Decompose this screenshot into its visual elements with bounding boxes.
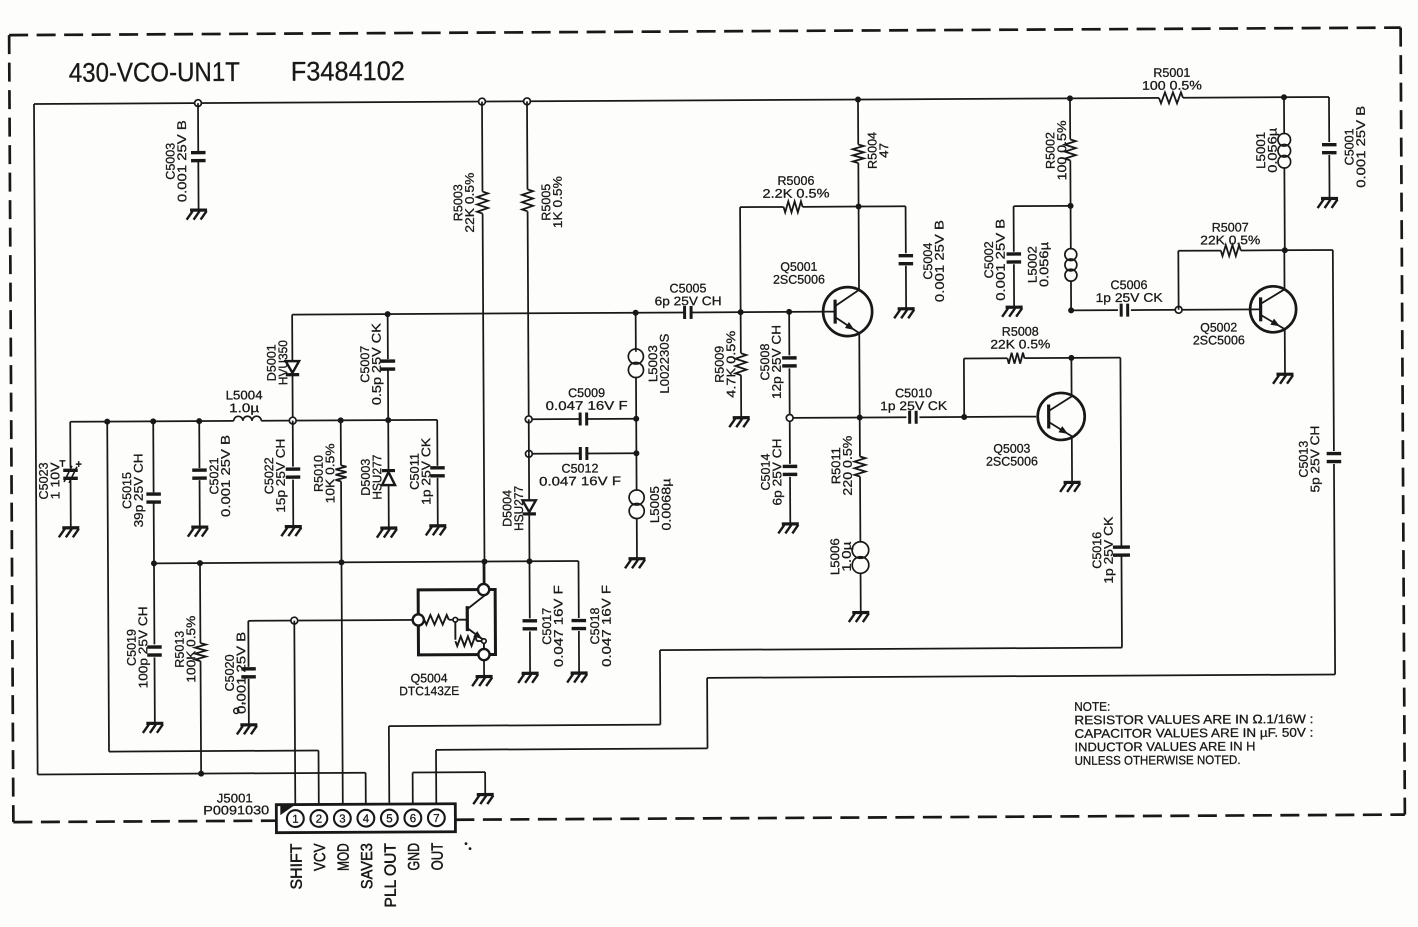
svg-text:0.047 16V F: 0.047 16V F [551,585,565,668]
svg-text:UNLESS OTHERWISE NOTED.: UNLESS OTHERWISE NOTED. [1075,753,1241,768]
svg-text:3: 3 [339,814,345,826]
svg-text:0.047 16V F: 0.047 16V F [546,399,629,413]
svg-text:5p 25V CH: 5p 25V CH [1308,426,1322,493]
svg-text:6: 6 [410,813,416,825]
svg-text:15p 25V CH: 15p 25V CH [274,439,288,513]
svg-text:100K 0.5%: 100K 0.5% [184,616,198,683]
svg-text:430-VCO-UN1T: 430-VCO-UN1T [69,57,240,88]
svg-text:OUT: OUT [430,843,447,871]
svg-text:P0091030: P0091030 [203,803,269,817]
svg-text:5: 5 [386,813,392,825]
svg-text:22K 0.5%: 22K 0.5% [1200,233,1260,247]
svg-text:10K 0.5%: 10K 0.5% [323,443,337,503]
svg-text:SHIFT: SHIFT [289,843,306,889]
svg-text:0.001 25V B: 0.001 25V B [234,632,248,714]
svg-text:1p 25V CK: 1p 25V CK [880,399,948,413]
svg-text:47: 47 [877,143,891,158]
svg-text:2SC5006: 2SC5006 [773,273,825,287]
svg-text:1: 1 [292,814,298,826]
svg-text:1.0µ: 1.0µ [840,542,854,572]
svg-text:2.2K 0.5%: 2.2K 0.5% [762,186,829,200]
svg-text:0.047 16V F: 0.047 16V F [539,474,622,488]
svg-text:6p 25V CH: 6p 25V CH [770,438,784,505]
svg-text:100 0.5%: 100 0.5% [1055,120,1069,180]
svg-text:22K 0.5%: 22K 0.5% [463,173,477,233]
svg-text:7: 7 [433,813,439,825]
svg-text:1 10V: 1 10V [48,462,62,500]
svg-text:HVU350: HVU350 [276,340,290,385]
svg-text:0.001 25V B: 0.001 25V B [1354,106,1368,188]
svg-text:6p 25V CH: 6p 25V CH [655,294,722,308]
svg-text:SAVE3: SAVE3 [359,843,376,889]
svg-text:0.056µ: 0.056µ [1265,128,1279,173]
svg-text:DTC143ZE: DTC143ZE [399,684,459,698]
svg-text:220 0.5%: 220 0.5% [841,436,855,496]
svg-text:VCV: VCV [312,843,329,871]
svg-text:MOD: MOD [336,843,353,871]
svg-text:2: 2 [316,814,322,826]
svg-text:F3484102: F3484102 [291,56,405,87]
svg-text:0.001 25V B: 0.001 25V B [175,120,189,202]
svg-text:4.7K 0.5%: 4.7K 0.5% [724,331,738,398]
svg-text:22K 0.5%: 22K 0.5% [990,337,1050,351]
svg-text:1K 0.5%: 1K 0.5% [551,176,565,228]
svg-text:0.001 25V B: 0.001 25V B [932,220,946,302]
svg-text:0.001 25V B: 0.001 25V B [993,219,1007,301]
svg-text:1p 25V CK: 1p 25V CK [419,437,433,505]
svg-text:2SC5006: 2SC5006 [986,454,1038,468]
svg-text:2SC5006: 2SC5006 [1193,333,1245,347]
svg-text:4: 4 [363,813,370,825]
svg-text:+: + [75,459,82,471]
svg-text:12p 25V CH: 12p 25V CH [770,325,784,399]
svg-text:HSU277: HSU277 [370,455,384,500]
svg-text:1p 25V CK: 1p 25V CK [1096,291,1164,305]
svg-text:100 0.5%: 100 0.5% [1142,78,1202,92]
svg-text:0.047 16V F: 0.047 16V F [599,584,613,667]
svg-text:0.001 25V B: 0.001 25V B [219,435,233,517]
svg-text:1p 25V CK: 1p 25V CK [1102,516,1116,584]
svg-text:CAPACITOR VALUES ARE IN µF. 50: CAPACITOR VALUES ARE IN µF. 50V : [1074,726,1313,741]
svg-text:GND: GND [406,843,423,871]
svg-text:NOTE:: NOTE: [1074,700,1110,714]
svg-text:39p 25V CH: 39p 25V CH [131,453,145,527]
svg-text:1.0µ: 1.0µ [229,401,259,415]
svg-text:0.5p 25V CK: 0.5p 25V CK [369,322,383,405]
svg-text:L002230S: L002230S [658,334,672,394]
svg-text:0.056µ: 0.056µ [1037,242,1051,287]
svg-text:100p 25V CH: 100p 25V CH [136,606,150,688]
svg-text:PLL OUT: PLL OUT [383,843,400,908]
svg-text:HSU277: HSU277 [512,486,526,531]
svg-text:0.0068µ: 0.0068µ [659,479,673,531]
